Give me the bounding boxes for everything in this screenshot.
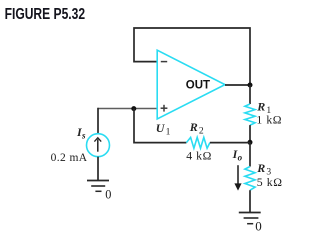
resistor R2 zigzag xyxy=(186,137,210,148)
wire node A down to R1 xyxy=(249,85,251,104)
wire R3 to ground xyxy=(249,190,251,212)
op-amp U1 xyxy=(157,50,225,119)
node B junction of R1 R2 R3 xyxy=(248,140,253,145)
figure title FIGURE P5.32 xyxy=(5,5,86,23)
svg-text:0: 0 xyxy=(105,188,111,202)
wire current source to ground xyxy=(97,157,99,181)
svg-text:4 kΩ: 4 kΩ xyxy=(186,149,212,163)
wire feedback loop: output node to inverting input xyxy=(134,28,250,85)
value 5 kOhm xyxy=(257,175,283,189)
wire plus lead to current source xyxy=(97,108,99,134)
resistor R3 zigzag xyxy=(245,167,255,191)
value 0.2 mA xyxy=(51,152,88,164)
value 4 kOhm xyxy=(186,149,212,163)
svg-text:0.2 mA: 0.2 mA xyxy=(51,152,88,164)
wire node B down to R3 xyxy=(249,142,251,166)
node A output node xyxy=(248,83,253,88)
ground right node label 0 xyxy=(255,218,262,233)
wire R1 to node B xyxy=(249,125,251,143)
label Is xyxy=(76,125,86,141)
svg-text:1 kΩ: 1 kΩ xyxy=(256,112,282,126)
ground left xyxy=(87,181,109,192)
wire R2 to node B xyxy=(210,142,250,144)
current arrow Io xyxy=(234,165,241,190)
wire noninverting input lead xyxy=(98,108,157,110)
wire from plus-input node down to R2 xyxy=(134,109,186,143)
resistor R1 zigzag xyxy=(245,104,255,125)
value 1 kOhm xyxy=(256,112,282,126)
label R2 xyxy=(189,120,204,137)
ground left node label 0 xyxy=(105,188,111,202)
wire op-amp output lead to node A xyxy=(225,84,250,86)
svg-text:0: 0 xyxy=(255,218,262,233)
svg-text:FIGURE P5.32: FIGURE P5.32 xyxy=(5,5,86,23)
current source Is xyxy=(87,134,110,157)
label R1 xyxy=(256,99,271,116)
label Io xyxy=(232,147,243,163)
svg-text:5 kΩ: 5 kΩ xyxy=(257,175,283,189)
label R3 xyxy=(256,161,271,178)
op-amp designator U1 xyxy=(156,121,171,138)
ground right xyxy=(239,213,261,224)
svg-text:OUT: OUT xyxy=(186,80,210,92)
node junction at plus input xyxy=(131,106,136,111)
